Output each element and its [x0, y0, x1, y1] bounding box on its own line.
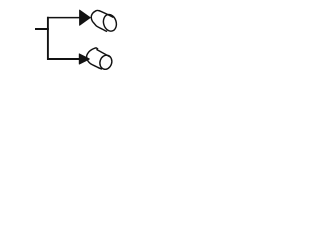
- amplifier A1 triangle: [80, 10, 91, 25]
- transducer T2 cylinder top side: [96, 49, 110, 57]
- wire input stub: [35, 28, 49, 30]
- transducer T1 cylinder back rim: [91, 10, 107, 31]
- wire top branch: [47, 17, 81, 19]
- wire vertical branch: [47, 17, 49, 60]
- wire bottom branch: [47, 58, 81, 60]
- transducer T2 cylinder back rim: [87, 48, 103, 69]
- transducer T2 cylinder face: [98, 54, 114, 71]
- transducer T1 cylinder top side: [99, 11, 113, 18]
- transducer T1 cylinder face: [102, 13, 119, 33]
- amplifier A2 triangle: [79, 54, 89, 64]
